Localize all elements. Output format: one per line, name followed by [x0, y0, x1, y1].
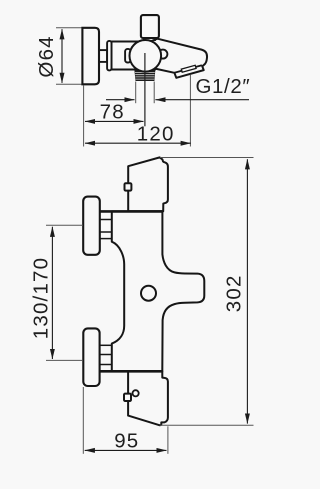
dimension line 302: [246, 159, 248, 423]
svg-text:78: 78: [100, 101, 125, 124]
spout tab square: [125, 183, 132, 190]
knob base left line: [143, 38, 145, 41]
wall connector neck: [99, 50, 107, 62]
spout end extension line down: [189, 75, 191, 147]
svg-text:120: 120: [137, 122, 175, 145]
diverter knob on top: [141, 15, 159, 38]
outlet small circle: [133, 390, 139, 396]
extension line lower union center: [46, 359, 83, 361]
extension line outlet bottom: [160, 424, 254, 426]
body bottom bold line: [100, 370, 164, 373]
svg-text:302: 302: [223, 274, 246, 312]
body and spout outline: [111, 39, 207, 78]
extension line bottom of flange: [56, 83, 82, 85]
dimension line 78: [85, 120, 144, 122]
upper union ribs: [100, 219, 112, 221]
aerator top edge: [174, 65, 202, 73]
svg-text:95: 95: [114, 429, 139, 452]
body end cap ring: [107, 41, 111, 71]
aerator inner plate: [181, 65, 196, 72]
wall flange: [82, 28, 99, 85]
svg-text:G1/2″: G1/2″: [196, 75, 251, 98]
extension line top of flange: [56, 27, 82, 29]
thread OD extension left: [135, 82, 137, 104]
extension line knob left down: [82, 387, 84, 454]
centerline of outlet: [144, 53, 146, 126]
cartridge cap left of knob circle: [125, 49, 131, 63]
wall extension line down: [83, 85, 85, 147]
thread OD dimension left arrow: [106, 99, 135, 101]
control knob circle: [130, 40, 162, 72]
lower union ribs: [100, 344, 112, 346]
upper wall knob: [83, 197, 100, 255]
shower outlet piece (front bottom): [128, 371, 168, 425]
dimension line 95: [85, 449, 167, 451]
svg-text:130/170: 130/170: [30, 257, 53, 340]
extension line upper union center: [46, 224, 83, 226]
body top bold line: [100, 210, 163, 213]
lower wall knob: [83, 328, 99, 386]
tub spout (front): [128, 157, 168, 211]
knob base right line: [154, 38, 156, 41]
mixer body (front): [112, 211, 205, 371]
dimension line 120: [85, 142, 191, 144]
lever tab right of knob circle: [158, 50, 167, 59]
threaded shower outlet G1/2: [134, 70, 155, 81]
dimension line 130/170: [51, 227, 53, 359]
extension line spout top: [160, 157, 254, 159]
svg-text:Ø64: Ø64: [35, 35, 58, 77]
dimension line Ø64: [61, 29, 63, 83]
thread OD extension right: [153, 82, 155, 104]
extension line outlet right down: [167, 426, 169, 454]
temperature ring circle: [141, 286, 156, 301]
outlet square tab: [124, 394, 131, 401]
thread OD dimension right arrow: [155, 99, 249, 101]
